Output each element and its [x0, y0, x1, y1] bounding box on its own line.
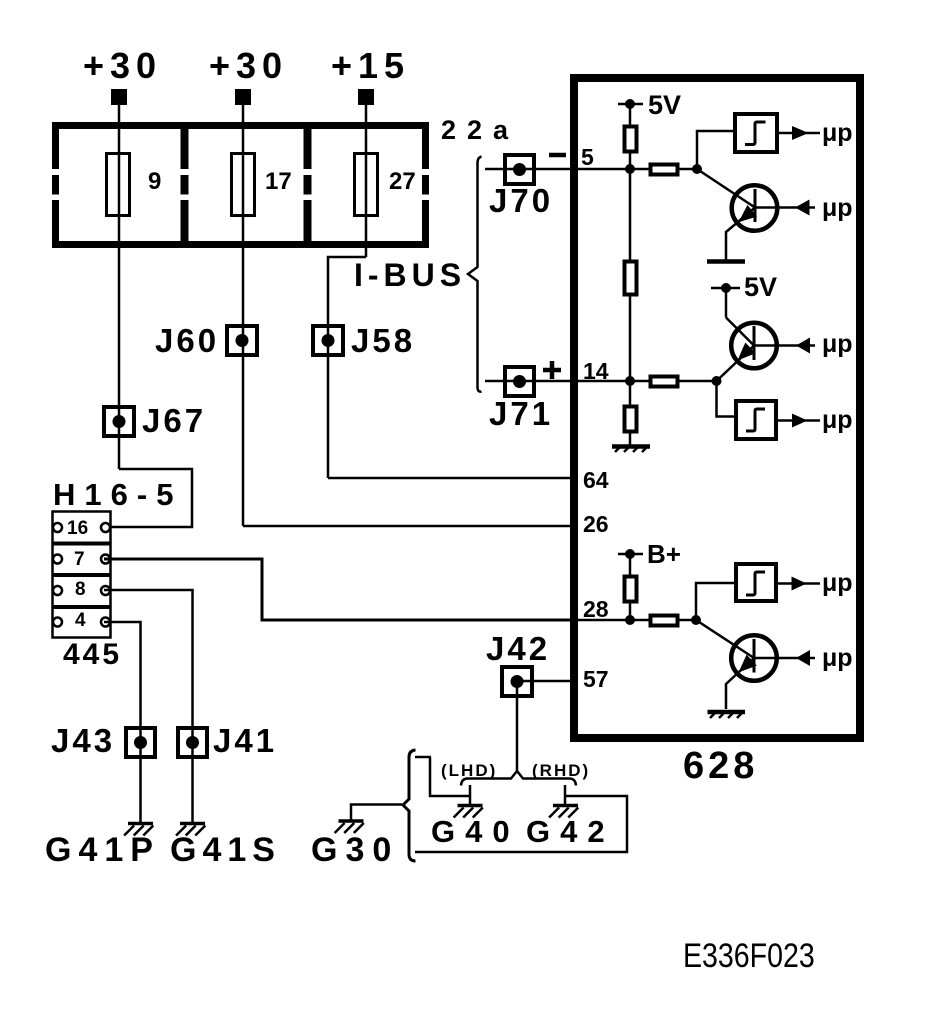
svg-text:64: 64	[583, 467, 609, 493]
svg-text:27: 27	[389, 168, 416, 195]
svg-text:4: 4	[75, 610, 86, 631]
svg-text:9: 9	[148, 168, 161, 195]
svg-text:5V: 5V	[648, 90, 681, 120]
svg-text:445: 445	[63, 638, 122, 671]
svg-text:G30: G30	[311, 831, 399, 869]
svg-text:J71: J71	[489, 395, 553, 432]
svg-text:μp: μp	[822, 119, 853, 147]
svg-text:+15: +15	[331, 45, 410, 86]
svg-text:8: 8	[75, 579, 86, 600]
svg-text:+30: +30	[209, 45, 288, 86]
svg-text:+30: +30	[83, 45, 162, 86]
svg-text:7: 7	[74, 549, 85, 570]
svg-text:J43: J43	[51, 722, 115, 759]
svg-text:J41: J41	[213, 722, 277, 759]
svg-text:G41S: G41S	[170, 831, 281, 869]
svg-text:628: 628	[683, 745, 758, 787]
svg-text:(RHD): (RHD)	[532, 761, 590, 780]
svg-text:5V: 5V	[744, 272, 777, 302]
svg-text:μp: μp	[822, 194, 853, 222]
svg-text:16: 16	[67, 518, 88, 539]
svg-text:5: 5	[581, 144, 594, 170]
svg-text:I-BUS: I-BUS	[354, 257, 466, 293]
svg-text:(LHD): (LHD)	[441, 761, 497, 780]
svg-text:G40: G40	[431, 814, 520, 849]
svg-text:E336F023: E336F023	[683, 937, 815, 975]
svg-text:G42: G42	[526, 814, 615, 849]
svg-text:μp: μp	[822, 569, 853, 597]
svg-text:G41P: G41P	[45, 831, 160, 869]
svg-text:μp: μp	[822, 644, 853, 672]
svg-text:26: 26	[583, 511, 609, 537]
svg-text:μp: μp	[822, 330, 853, 358]
svg-text:57: 57	[583, 666, 609, 692]
svg-text:H16-5: H16-5	[53, 477, 182, 512]
svg-text:17: 17	[265, 168, 292, 195]
svg-text:J60: J60	[155, 322, 219, 359]
svg-text:J70: J70	[489, 182, 553, 219]
svg-text:22a: 22a	[441, 115, 519, 145]
svg-text:B+: B+	[647, 539, 681, 569]
svg-text:J42: J42	[486, 630, 550, 667]
svg-text:J67: J67	[142, 402, 206, 439]
svg-text:μp: μp	[822, 406, 853, 434]
svg-text:J58: J58	[351, 322, 415, 359]
svg-text:28: 28	[583, 596, 609, 622]
